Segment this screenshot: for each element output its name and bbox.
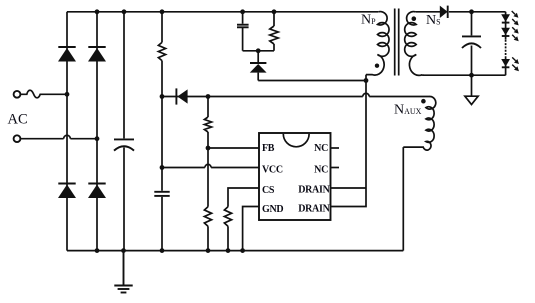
capacitor C-bulk (polarized) — [114, 139, 134, 150]
svg-text:NC: NC — [314, 143, 328, 154]
svg-text:NC: NC — [314, 165, 328, 176]
transformer secondary winding Ns — [405, 12, 424, 76]
wire: top DC rail — [67, 11, 378, 13]
wire: GND line and branch x=242.6 — [243, 207, 259, 251]
wire: output cap branch — [471, 12, 473, 75]
earth ground symbol — [114, 251, 132, 293]
node: neutral-bridge junction — [95, 136, 100, 141]
wire: LED string (dashed continuation) — [505, 12, 507, 75]
LED D-led3 — [501, 57, 519, 71]
node: snubber-rail junction (242.6,top) — [240, 9, 245, 14]
resistor R-snubber — [270, 26, 278, 44]
wire: startup branch x=162 — [161, 12, 163, 251]
wire: FB divider branch x=208 — [207, 97, 209, 251]
svg-text:GND: GND — [262, 204, 283, 215]
wire: bulk capacitor branch x=124 — [123, 12, 125, 251]
wire: secondary top rail — [416, 11, 506, 13]
fuse F1 — [20, 90, 67, 98]
resistor R-cs — [224, 207, 231, 226]
wire: snubber cap branch x=242.6 — [243, 12, 274, 51]
node: vcc line junction (162,167.5) — [160, 165, 165, 170]
phase dot primary — [375, 63, 379, 67]
capacitor C-vcc — [154, 192, 169, 196]
svg-text:VCC: VCC — [262, 165, 283, 176]
diode D-clamp TVS (points up) — [250, 51, 267, 81]
node: snubber bottom junction (258.2,50.8) — [256, 48, 261, 53]
svg-text:AC: AC — [8, 112, 28, 128]
LED D-led1 — [501, 11, 519, 25]
pin stub NC1 — [331, 147, 340, 149]
node: startup-rail junction (162,top) — [160, 9, 165, 14]
op-amp/controller IC U1 body — [259, 133, 331, 220]
AC terminal bottom — [14, 135, 21, 142]
phase dot secondary — [412, 16, 417, 21]
wire: clamp-to-drain line y=80.5 — [258, 80, 366, 82]
transformer aux winding Naux — [403, 96, 435, 150]
node: output cap bottom junction — [469, 73, 474, 78]
wire: DRAIN pin 6 — [331, 187, 367, 189]
node: snubber-rail junction (274,top) — [272, 9, 277, 14]
diode bridge D2 (top-right) — [88, 47, 106, 62]
node: rail junction (228,bottom) — [226, 248, 231, 253]
diode D-vcc (points left) — [176, 88, 187, 104]
wire: bottom ground rail — [67, 250, 403, 252]
wire: aux-to-vcc line y=96.5 (hop at x=366) — [162, 96, 430, 98]
node: vcc-diode junction (162,96.5) — [160, 94, 165, 99]
capacitor C-snubber — [237, 25, 249, 28]
svg-text:DRAIN: DRAIN — [298, 185, 330, 196]
node: rail junction (97,top) — [95, 9, 100, 14]
pin stub NC2 — [331, 167, 340, 169]
crossover hop on AC neutral at x=67 — [64, 135, 71, 138]
svg-text:FB: FB — [262, 143, 275, 154]
transformer core — [395, 9, 399, 76]
IC notch — [283, 134, 309, 147]
node: rail junction (162,bottom) — [160, 248, 165, 253]
node: FB junction (208,148) — [206, 146, 211, 151]
wire: left bridge leg x=67 — [66, 12, 68, 251]
phase dot aux — [421, 99, 426, 104]
wire: AC neutral (hops over x=67) — [20, 138, 97, 140]
svg-text:CS: CS — [262, 185, 275, 196]
AC terminal top — [14, 91, 21, 98]
node: fb-divider top junction (208,96.5) — [206, 94, 211, 99]
node: clamp-drain junction (366,80.5) — [364, 78, 369, 83]
wire: secondary bottom rail — [423, 74, 506, 76]
LED D-led2 — [501, 27, 519, 41]
wire: VCC line (hops over x=208) — [162, 167, 259, 169]
diode bridge D3 (bottom-left) — [58, 184, 76, 199]
resistor R-startup — [158, 42, 165, 60]
ground symbol (output, open triangle) — [465, 75, 478, 104]
diode D-out (points right) — [440, 6, 448, 18]
node: fuse-bridge junction — [65, 92, 70, 97]
transformer primary winding Np — [366, 12, 389, 75]
node: rail junction (124,top) — [122, 9, 127, 14]
wire: CS line and branch x=228 — [228, 188, 259, 251]
wire: second bridge leg x=97 — [96, 12, 98, 251]
crossover hop on aux-vcc line at x=366 — [363, 93, 369, 96]
resistor R-fb-upper — [204, 117, 211, 132]
svg-text:DRAIN: DRAIN — [298, 204, 330, 215]
resistor R-fb-lower — [204, 207, 211, 226]
wire: snubber resistor branch x=274 — [273, 12, 275, 51]
crossover hop on VCC line at x=208 — [205, 164, 211, 167]
node: rail junction (242.6,bottom) — [240, 248, 245, 253]
node: rail junction (123.5,bottom) — [121, 248, 126, 253]
wire: FB line — [208, 147, 259, 149]
capacitor C-out (polarized) — [462, 36, 481, 48]
diode bridge D4 (bottom-right) — [88, 184, 106, 199]
node: rail junction (97,bottom) — [95, 248, 100, 253]
node: rail junction (208,bottom) — [206, 248, 211, 253]
wire: DRAIN pin 5 and drain vertical — [331, 75, 367, 207]
wire: aux return to ground rail — [402, 147, 404, 251]
diode bridge D1 (top-left) — [58, 47, 76, 62]
node: output cap top junction — [469, 9, 474, 14]
